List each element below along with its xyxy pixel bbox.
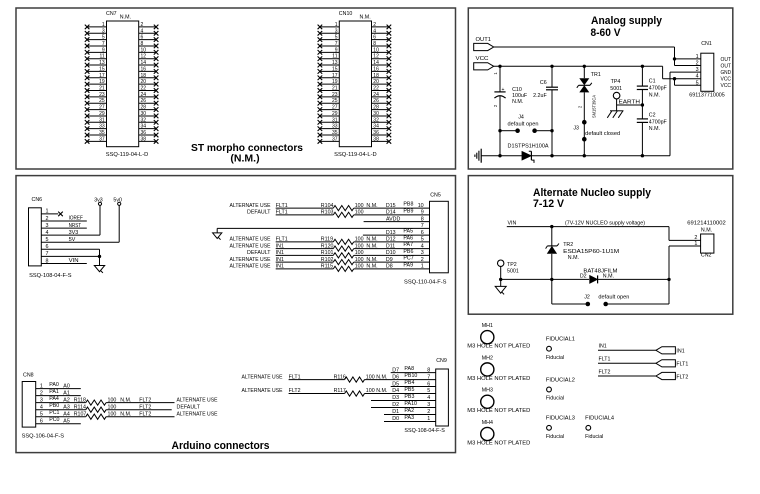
svg-text:1: 1 [421,264,424,270]
svg-text:5: 5 [335,35,338,41]
svg-text:M3 HOLE NOT PLATED: M3 HOLE NOT PLATED [467,408,530,414]
CN10 pin 2 wire [372,26,389,28]
CN10 pin 8 wire [372,45,389,47]
svg-text:ALTERNATE USE: ALTERNATE USE [177,397,218,403]
svg-text:100: 100 [355,203,364,209]
CN7 pin 9 wire [87,51,106,53]
svg-text:VCC: VCC [476,56,489,62]
svg-text:5V: 5V [69,237,76,243]
wire D2 row [501,278,669,281]
wire CN6 gnd stem [99,249,101,265]
CN7 pin 1 wire [87,26,106,28]
svg-text:SSQ-110-04-F-S: SSQ-110-04-F-S [404,280,447,286]
svg-text:10: 10 [418,203,424,209]
svg-text:4700pF: 4700pF [649,119,668,125]
svg-text:32: 32 [373,117,379,123]
svg-text:D4: D4 [392,388,399,394]
CN7 pin 37 wire [87,140,106,142]
svg-text:IN1: IN1 [676,349,684,355]
svg-text:C6: C6 [540,80,547,86]
CN10 pin 14 wire [372,64,389,66]
CN5 pin 7 wire to ground [217,223,429,233]
svg-text:PC0: PC0 [49,417,59,423]
CN8 pin 4 row (PB0 A3) [36,403,201,412]
connector CN1 [689,41,725,98]
svg-text:8: 8 [373,41,376,47]
CN10 pin 23 wire [320,96,339,98]
svg-text:D3: D3 [392,395,399,401]
svg-text:7: 7 [421,223,424,229]
svg-text:6: 6 [427,381,430,387]
svg-text:29: 29 [332,111,338,117]
CN7 pin 13 wire [87,64,106,66]
svg-text:CN2: CN2 [701,253,712,259]
CN7 pin 3 wire [87,32,106,34]
svg-text:PB0: PB0 [49,403,59,409]
svg-text:J2: J2 [584,294,590,300]
svg-text:C1: C1 [649,79,656,85]
CN7 pin 19 wire [87,83,106,85]
svg-text:8: 8 [141,41,144,47]
svg-text:PB5: PB5 [404,387,414,393]
svg-text:PA10: PA10 [404,401,417,407]
CN6 pin 1 wire + X [41,209,63,217]
capacitor C2 4700pF N.M. [637,112,668,155]
svg-text:OUT: OUT [721,63,732,69]
svg-text:21: 21 [99,86,105,92]
svg-text:10: 10 [141,47,147,53]
svg-text:D8: D8 [386,264,393,270]
bottom ground rail [481,154,670,157]
svg-text:22: 22 [373,86,379,92]
CN9 pin 5 row (FLT2 R117) [242,387,436,396]
CN7 pin 25 wire [87,102,106,104]
svg-text:100: 100 [355,250,364,256]
svg-text:7: 7 [335,41,338,47]
CN7 pin 32 wire [139,121,156,123]
svg-text:3: 3 [102,28,105,34]
CN5 pin 10 row (FLT1 R104) [230,202,430,211]
svg-text:Analog supply: Analog supply [591,15,663,27]
svg-text:100: 100 [355,257,364,263]
CN10 pin 11 wire [320,58,339,60]
svg-text:691137710005: 691137710005 [689,92,725,98]
CN10 pin 27 wire [320,109,339,111]
svg-text:19: 19 [99,79,105,85]
svg-text:CN6: CN6 [32,197,43,203]
wire OUT1 to CN1 [494,47,701,66]
CN7 pin 5 wire [87,39,106,41]
svg-text:22: 22 [141,86,147,92]
svg-text:1: 1 [427,416,430,422]
title: ST morpho connectors [191,142,303,164]
svg-text:PA5: PA5 [403,229,413,235]
svg-text:MH4: MH4 [482,420,493,426]
CN1 pin 1 OUT [696,54,732,63]
svg-text:100: 100 [355,243,364,249]
CN7 pin 31 wire [87,121,106,123]
net flag VCC [474,56,494,70]
svg-text:D10: D10 [386,250,396,256]
CN10 pin 31 wire [320,121,339,123]
svg-text:M3 HOLE NOT PLATED: M3 HOLE NOT PLATED [467,440,530,446]
svg-text:31: 31 [332,117,338,123]
svg-text:3: 3 [421,250,424,256]
CN1 pin 3 GND [696,67,732,76]
svg-text:6: 6 [373,35,376,41]
CN6 pin 5 net 5V [41,205,119,243]
svg-text:19: 19 [332,79,338,85]
svg-text:38: 38 [141,136,147,142]
svg-text:R120: R120 [321,243,334,249]
net flag FLT1 [598,357,688,368]
CN10 pin 9 wire [320,51,339,53]
connector CN5 body [404,193,448,286]
svg-text:8-60 V: 8-60 V [591,27,622,39]
svg-text:20: 20 [141,79,147,85]
svg-text:8: 8 [421,216,424,222]
svg-text:6: 6 [421,230,424,236]
svg-text:D13: D13 [386,230,396,236]
CN7 pin 15 wire [87,70,106,72]
net EARTH wire [617,100,645,107]
svg-text:D11: D11 [386,243,395,249]
CN8 pin 5 row (PC1 A4) [36,410,218,419]
svg-text:D6: D6 [392,374,399,380]
svg-text:FLT2: FLT2 [139,397,151,403]
svg-text:R119: R119 [321,237,333,243]
svg-text:VCC: VCC [721,83,732,89]
CN7 pin 2 wire [139,26,156,28]
connector CN10 body [339,21,371,147]
svg-text:N.M.: N.M. [649,126,660,132]
svg-text:R117: R117 [334,388,346,394]
svg-text:PA4: PA4 [49,396,59,402]
svg-text:CN8: CN8 [23,373,34,379]
CN6 pin 7 wire [41,251,101,258]
svg-text:R102: R102 [321,257,334,263]
svg-text:5: 5 [102,35,105,41]
svg-text:J4: J4 [518,115,524,121]
svg-text:9: 9 [421,210,424,216]
CN10 pin 20 wire [372,83,389,85]
connector CN2 691214110002 N.M. [687,220,726,258]
CN10 pin 17 wire [320,77,339,79]
CN7 pin 30 wire [139,115,156,117]
svg-text:PB8: PB8 [403,202,413,208]
CN7 pin 7 wire [87,45,106,47]
svg-text:FIDUCIAL1: FIDUCIAL1 [546,337,575,343]
svg-text:PB10: PB10 [404,373,417,379]
svg-text:SSQ-119-04-L-D: SSQ-119-04-L-D [334,152,377,158]
wire CN2 pin1 to D2 node [667,246,700,304]
svg-text:R115: R115 [321,264,333,270]
svg-text:TR1: TR1 [591,72,601,78]
svg-text:N.M.: N.M. [512,99,523,105]
CN10 pin 19 wire [320,83,339,85]
svg-text:D2: D2 [392,402,399,408]
svg-text:N.M.: N.M. [120,15,131,21]
CN7 pin 29 wire [87,115,106,117]
frame: Arduino connectors box [16,176,456,453]
CN10 pin 26 wire [372,102,389,104]
svg-text:PA1: PA1 [49,389,59,395]
CN10 pin 29 wire [320,115,339,117]
CN7 pin 24 wire [139,96,156,98]
svg-text:33: 33 [99,124,105,130]
ground symbol (CN5 pin7) [213,233,222,239]
svg-text:CN7: CN7 [106,11,117,17]
svg-text:MH1: MH1 [482,323,493,329]
svg-text:14: 14 [141,60,147,66]
svg-text:16: 16 [141,66,147,72]
svg-text:N.M.: N.M. [120,397,131,403]
CN10 pin 3 wire [320,32,339,34]
CN7 pin 26 wire [139,102,156,104]
CN8 pin 3 row (PA4 A2) [36,396,218,405]
CN10 pin 21 wire [320,90,339,92]
svg-text:10: 10 [373,47,379,53]
svg-text:7-12 V: 7-12 V [533,198,565,210]
svg-text:CN9: CN9 [436,358,447,364]
svg-text:12: 12 [373,54,379,60]
svg-text:100: 100 [355,237,364,243]
CN5 pin 2 row (IN1 R102) [230,256,430,265]
svg-text:D2: D2 [580,274,587,280]
svg-text:N.M.: N.M. [376,388,387,394]
CN10 pin 35 wire [320,134,339,136]
svg-text:D12: D12 [386,237,396,243]
svg-text:R103: R103 [321,210,334,216]
CN7 pin 10 wire [139,51,156,53]
svg-text:3: 3 [696,67,699,73]
capacitor C1 4700pF N.M. [637,66,668,119]
CN7 pin 6 wire [139,39,156,41]
CN9 pin 6 net D5 PB4 [391,380,436,387]
CN9 pin 2 net D1 PA2 [384,408,436,415]
svg-text:30: 30 [141,111,147,117]
svg-text:6: 6 [141,35,144,41]
test point TP4 5001 [610,79,622,111]
connector CN8 body [22,373,65,440]
CN8 pin 1 row (PA0 A0) [36,382,81,389]
svg-text:FLT2: FLT2 [599,369,611,375]
CN10 pin 13 wire [320,64,339,66]
svg-text:5: 5 [696,80,699,86]
svg-text:2.2uF: 2.2uF [533,93,547,99]
CN10 pin 15 wire [320,70,339,72]
svg-text:PB6: PB6 [403,249,413,255]
svg-text:FIDUCIAL2: FIDUCIAL2 [546,377,575,383]
fiducial FIDUCIAL2 [546,377,575,401]
net VIN wire [507,220,701,240]
CN1 pin 4 VCC [696,74,732,83]
svg-text:38: 38 [373,136,379,142]
CN10 pin 12 wire [372,58,389,60]
CN7 pin 16 wire [139,70,156,72]
svg-text:ALTERNATE USE: ALTERNATE USE [230,237,271,243]
svg-text:M3 HOLE NOT PLATED: M3 HOLE NOT PLATED [467,344,530,350]
svg-text:R116: R116 [334,374,346,380]
svg-text:1: 1 [335,22,338,28]
svg-text:5: 5 [421,237,424,243]
svg-text:14: 14 [373,60,379,66]
svg-text:PA9: PA9 [403,262,413,268]
svg-text:N.M.: N.M. [603,274,614,280]
svg-text:100: 100 [108,411,117,417]
svg-text:NRST: NRST [69,223,82,229]
svg-text:Fiducial: Fiducial [546,434,564,440]
svg-text:9: 9 [335,47,338,53]
svg-text:ALTERNATE USE: ALTERNATE USE [242,388,283,394]
svg-text:M3 HOLE NOT PLATED: M3 HOLE NOT PLATED [467,376,530,382]
svg-text:100: 100 [355,264,364,270]
svg-text:25: 25 [99,98,105,104]
svg-text:36: 36 [141,130,147,136]
svg-text:CN1: CN1 [701,41,712,47]
ground symbol (TP2) [495,286,506,293]
CN10 pin 7 wire [320,45,339,47]
CN10 pin 37 wire [320,140,339,142]
CN7 pin 34 wire [139,128,156,130]
net flag FLT2 [598,369,688,380]
CN5 pin 6 net D13 PA5 [363,229,430,236]
svg-text:J3: J3 [573,125,579,131]
svg-text:7: 7 [102,41,105,47]
svg-text:7: 7 [427,374,430,380]
svg-text:100: 100 [355,210,364,216]
svg-text:Fiducial: Fiducial [546,355,564,361]
jumper J2 default open [552,279,669,306]
CN10 pin 24 wire [372,96,389,98]
CN5 pin 8 net AVDD [364,216,430,222]
svg-text:PA0: PA0 [49,382,59,388]
svg-text:D7: D7 [392,367,399,373]
svg-text:N.M.: N.M. [701,228,712,234]
svg-text:4: 4 [141,28,144,34]
svg-text:8: 8 [427,367,430,373]
svg-text:FIDUCIAL3: FIDUCIAL3 [546,416,575,422]
CN5 pin 5 row (FLT1 R119) [230,235,430,244]
svg-text:25: 25 [332,98,338,104]
svg-text:VCC: VCC [721,77,732,83]
svg-text:33: 33 [332,124,338,130]
svg-text:FLT1: FLT1 [599,357,611,363]
wire CN1 pin3 GND [670,72,701,156]
net flag OUT1 [474,37,494,51]
svg-text:Alternate Nucleo supply: Alternate Nucleo supply [533,187,652,199]
CN10 pin 36 wire [372,134,389,136]
svg-text:CN5: CN5 [430,193,441,199]
svg-text:PC1: PC1 [49,410,59,416]
svg-text:35: 35 [332,130,338,136]
CN10 pin 25 wire [320,102,339,104]
svg-text:R104: R104 [321,203,334,209]
ground symbol (CN6) [94,266,104,272]
svg-text:100: 100 [108,397,117,403]
test point TP2 5001 [498,260,519,286]
svg-text:11: 11 [332,54,337,60]
jumper J4 default open [498,115,553,133]
diode D2 BAT48JFILM N.M. [580,268,618,283]
mounting hole MH4 [467,420,530,447]
svg-text:OUT: OUT [721,57,732,63]
svg-text:26: 26 [373,98,379,104]
svg-text:default open: default open [598,294,629,300]
svg-text:2: 2 [421,257,424,263]
svg-text:34: 34 [141,124,147,130]
fiducial FIDUCIAL4 [585,416,614,440]
svg-text:30: 30 [373,111,379,117]
svg-text:Arduino connectors: Arduino connectors [172,440,270,452]
diode D1 STPS1H100A [508,144,549,163]
svg-text:32: 32 [141,117,147,123]
svg-text:27: 27 [332,105,338,111]
svg-text:Fiducial: Fiducial [585,434,603,440]
svg-text:D14: D14 [386,210,396,216]
svg-text:17: 17 [99,73,105,79]
svg-text:ALTERNATE USE: ALTERNATE USE [230,243,271,249]
CN5 pin 4 row (IN1 R120) [230,242,430,251]
svg-text:SSQ-106-04-F-S: SSQ-106-04-F-S [22,433,65,439]
svg-text:100: 100 [108,404,117,410]
CN8 pin 2 row (PA1 A1) [36,389,81,396]
svg-text:MH3: MH3 [482,388,493,394]
CN10 pin 5 wire [320,39,339,41]
CN7 pin 11 wire [87,58,106,60]
svg-text:1: 1 [102,22,105,28]
svg-text:CN10: CN10 [339,11,353,17]
svg-text:11: 11 [99,54,104,60]
CN7 pin 18 wire [139,77,156,79]
svg-text:DEFAULT: DEFAULT [247,250,271,256]
ground symbol (analog) [475,149,481,163]
svg-text:2: 2 [373,22,376,28]
CN9 pin 1 net D0 PA3 [384,415,436,422]
svg-text:VIN: VIN [69,258,79,264]
svg-text:34: 34 [373,124,379,130]
svg-text:4: 4 [373,28,376,34]
svg-text:28: 28 [141,105,147,111]
svg-text:SSQ-119-04-L-D: SSQ-119-04-L-D [106,152,149,158]
svg-text:100: 100 [366,374,375,380]
svg-text:18: 18 [373,73,379,79]
svg-text:N.M.: N.M. [366,257,377,263]
svg-text:26: 26 [141,98,147,104]
capacitor C6 2.2uF [533,66,558,155]
svg-text:N.M.: N.M. [366,264,377,270]
svg-text:13: 13 [332,60,338,66]
fiducial FIDUCIAL3 [546,416,575,440]
svg-text:D1: D1 [392,409,399,415]
mounting hole MH2 [467,355,530,382]
CN9 pin 3 net D2 PA10 [371,401,436,408]
svg-text:SM15T39CA: SM15T39CA [592,94,598,118]
mounting hole MH3 [467,388,530,415]
connector CN6 body [29,197,73,279]
svg-text:TP4: TP4 [611,79,621,85]
svg-text:default open: default open [508,121,539,127]
CN10 pin 16 wire [372,70,389,72]
svg-text:GND: GND [721,70,732,76]
svg-text:PB9: PB9 [403,208,413,214]
CN10 pin 34 wire [372,128,389,130]
supply symbol 3v3 [94,197,103,205]
frame: ST morpho connectors box [16,8,456,169]
svg-text:R114: R114 [74,404,86,410]
svg-text:MH2: MH2 [482,355,493,361]
svg-text:FLT2: FLT2 [139,411,151,417]
